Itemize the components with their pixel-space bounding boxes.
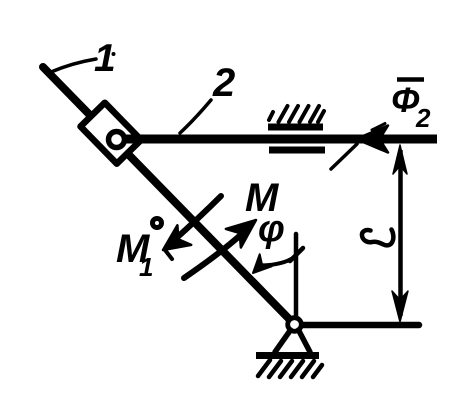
dimension upper arrowhead [393, 145, 407, 174]
angle arc arrowhead [253, 254, 272, 273]
slider block 3 [81, 103, 142, 164]
stray barb stroke [331, 144, 357, 169]
junction tick [290, 248, 303, 261]
moment arrow M shaft [184, 232, 244, 278]
label l [362, 230, 393, 246]
dimension line l vertical [398, 150, 403, 316]
svg-text:2: 2 [212, 61, 235, 105]
support triangle left leg [275, 330, 291, 352]
guide hatching [269, 106, 324, 122]
rod 2 (horizontal link) [124, 135, 437, 144]
M1 arrowhead barb flick [165, 250, 172, 259]
moment arrow M1 head [163, 225, 191, 250]
moment arrow M head [226, 220, 256, 248]
small dot by label 1 [112, 52, 116, 56]
svg-text:M: M [245, 176, 280, 220]
ground line [256, 352, 319, 359]
label Phi2 overbar [397, 77, 424, 82]
pin joint circle [109, 132, 125, 148]
svg-text:1: 1 [139, 252, 153, 282]
fixed guide bottom plate [269, 147, 325, 154]
label 1 leader line [51, 59, 96, 72]
force arrowhead Phi2 [356, 126, 388, 153]
fixed guide top plate [268, 124, 323, 131]
svg-text:2: 2 [415, 103, 431, 133]
ground hatching [258, 360, 322, 377]
small ring mark [153, 219, 162, 228]
rod 1 (inclined link) [43, 67, 295, 325]
dimension lower arrowhead [392, 291, 408, 322]
moment arrow M1 shaft [172, 196, 221, 242]
label 2 leader line [180, 100, 211, 133]
bottom reference line [302, 322, 419, 329]
pivot circle [288, 318, 302, 332]
vertical reference line for angle [294, 234, 299, 316]
support triangle right leg [299, 330, 311, 352]
small tick above arrowhead [372, 124, 385, 131]
svg-text:1: 1 [94, 37, 116, 80]
angle arc phi [261, 257, 295, 266]
